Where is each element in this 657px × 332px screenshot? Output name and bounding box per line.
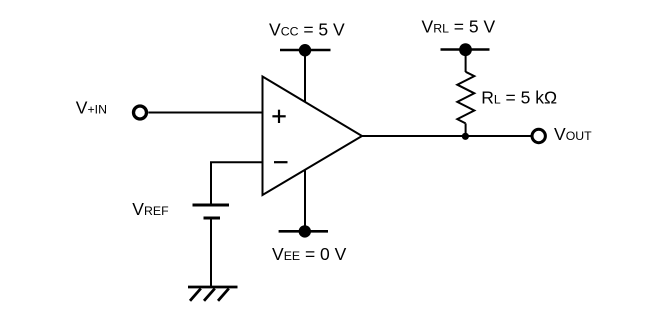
svg-text:VCC = 5 V: VCC = 5 V [269, 20, 345, 40]
op-amp - input marker [274, 161, 288, 163]
input terminal (open circle) [134, 106, 147, 119]
wire: op-amp output to VOUT terminal [362, 135, 531, 137]
battery VREF positive plate [193, 204, 230, 207]
op-amp U1 [263, 77, 363, 196]
wire: resistor bottom to output node [465, 123, 467, 136]
VCC junction dot [299, 44, 311, 56]
VCC supply rail bar [280, 49, 331, 52]
battery VREF negative plate [204, 217, 221, 220]
wire: VRL rail to resistor top [465, 50, 467, 73]
output node junction dot [462, 133, 469, 140]
op-amp + input marker [272, 110, 285, 123]
output terminal (open circle) [532, 129, 545, 142]
VEE junction dot [299, 225, 311, 237]
wire: input terminal to op-amp + input [148, 112, 262, 114]
svg-text:VEE = 0 V: VEE = 0 V [272, 244, 347, 264]
svg-text:RL = 5 kΩ: RL = 5 kΩ [481, 88, 557, 108]
VEE supply rail bar [279, 230, 328, 233]
wire: battery to ground [210, 218, 212, 287]
VRL junction dot [459, 43, 472, 56]
svg-text:VRL = 5 V: VRL = 5 V [422, 16, 496, 36]
resistor RL zigzag [457, 72, 474, 124]
wire: op-amp - input to battery node [211, 162, 262, 205]
wire: VCC rail to op-amp top [304, 50, 306, 102]
wire: op-amp bottom to VEE rail [304, 170, 306, 231]
ground [188, 287, 238, 301]
VRL supply rail bar [441, 48, 490, 51]
